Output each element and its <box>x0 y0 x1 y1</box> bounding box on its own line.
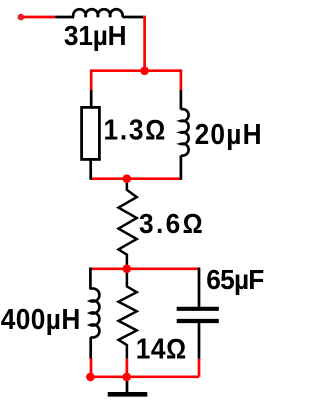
wire red rail1 bottom <box>91 177 181 180</box>
capacitor C1 bottom plate <box>177 319 219 323</box>
inductor L3 400uH <box>90 289 99 338</box>
capacitor C1 top plate <box>177 307 219 311</box>
wire black lead right of L1 <box>122 16 143 19</box>
wire black corner above L3 <box>90 269 92 290</box>
node D junction dot <box>86 373 95 382</box>
wire red left branch down <box>90 69 93 90</box>
svg-text:3.6Ω: 3.6Ω <box>139 208 205 239</box>
resistor R1 1.3ohm box <box>82 107 100 159</box>
wire red rail2 bottom <box>91 375 199 378</box>
wire red right branch down <box>180 69 183 90</box>
inductor L1 31uH <box>73 9 122 17</box>
svg-text:14Ω: 14Ω <box>136 333 187 365</box>
node A junction dot <box>140 67 149 76</box>
wire red rail1 top <box>91 69 181 72</box>
wire red corner down to node A <box>143 17 144 71</box>
wire red stub below C1 <box>198 359 201 377</box>
svg-text:20µH: 20µH <box>195 118 263 150</box>
wire black lead below L2 <box>180 155 183 179</box>
wire red stub below L3 <box>90 359 93 377</box>
node E junction dot <box>122 373 131 382</box>
resistor R2 3.6ohm zigzag <box>119 179 137 269</box>
wire black lead below C1 <box>198 323 201 359</box>
svg-text:1.3Ω: 1.3Ω <box>104 113 168 145</box>
wire black lead above R1 <box>90 90 93 108</box>
wire black lead below R1 <box>89 159 92 179</box>
resistor R3 14ohm zigzag <box>119 269 137 359</box>
svg-text:31µH: 31µH <box>64 20 127 51</box>
node B junction dot <box>123 174 132 183</box>
wire red rail2 top <box>92 267 200 270</box>
svg-text:400µH: 400µH <box>1 303 81 335</box>
ground symbol <box>108 392 148 397</box>
svg-text:65µF: 65µF <box>206 265 264 296</box>
wire red input top <box>20 16 55 19</box>
wire black lead above C1 <box>198 268 201 307</box>
wire black lead below L3 <box>89 337 92 359</box>
wire black lead left of L1 <box>55 16 74 19</box>
node C junction dot <box>123 265 132 274</box>
wire black lead above L2 <box>180 90 183 110</box>
terminal dot <box>18 14 25 21</box>
wire red stub below R3 <box>126 359 129 377</box>
wire ground stem <box>126 377 129 393</box>
inductor L2 20uH <box>181 109 189 155</box>
